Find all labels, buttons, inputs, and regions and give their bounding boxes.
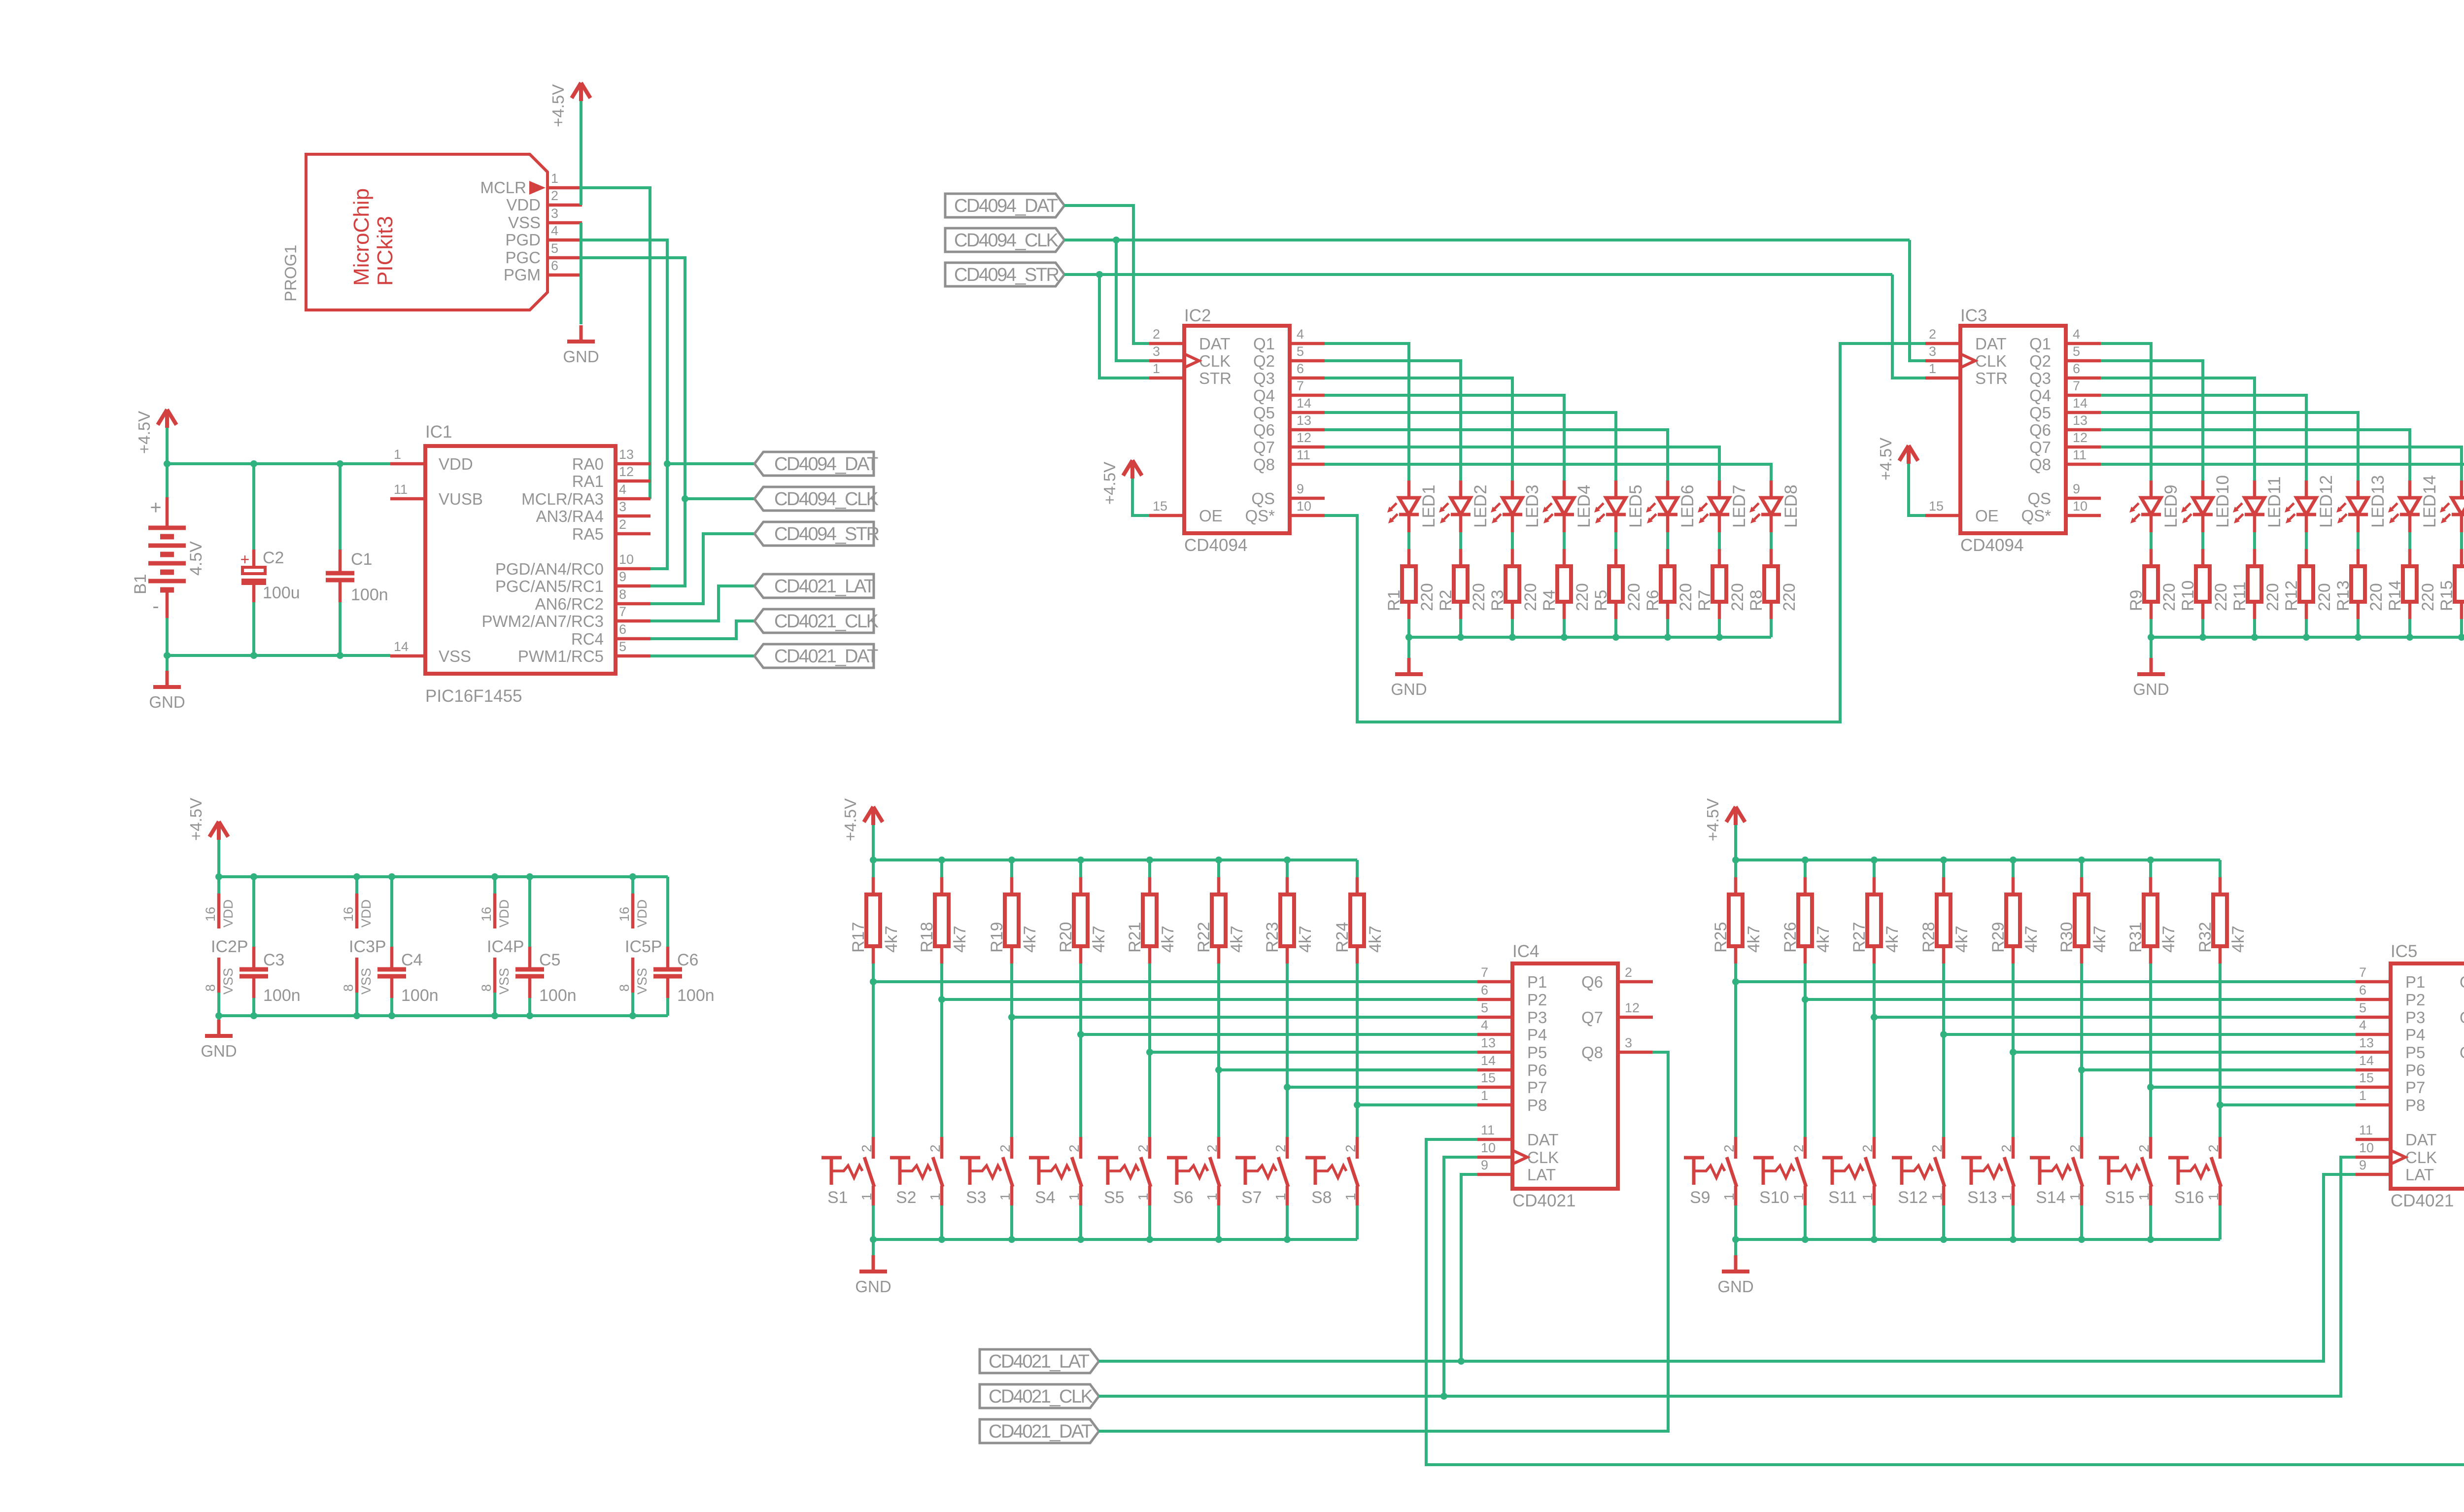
+4.5V supply at R17 rail bbox=[841, 798, 883, 841]
IC1 pin 2 RA5 bbox=[572, 517, 650, 543]
resistor R26 4k7 bbox=[1781, 877, 1833, 963]
junction bbox=[2147, 857, 2154, 863]
wire R2 to rail bbox=[1459, 619, 1462, 637]
junction bbox=[1509, 634, 1516, 641]
svg-text:AN3/RA4: AN3/RA4 bbox=[536, 507, 604, 525]
wire CD4021_DAT net bbox=[650, 654, 754, 657]
svg-text:IC2: IC2 bbox=[1184, 306, 1211, 325]
net flag CD4021_CLK bbox=[980, 1384, 1099, 1408]
LED LED15 bbox=[2440, 475, 2464, 532]
svg-text:+4.5V: +4.5V bbox=[135, 411, 153, 454]
svg-text:P4: P4 bbox=[1527, 1026, 1547, 1044]
svg-text:9: 9 bbox=[1481, 1158, 1488, 1172]
svg-text:R6: R6 bbox=[1643, 590, 1662, 611]
switch S10 bbox=[1753, 1137, 1806, 1207]
wire rail to R21 bbox=[1148, 860, 1151, 877]
svg-text:Q6: Q6 bbox=[1253, 421, 1275, 439]
ground at LED rail 1 bbox=[1391, 658, 1427, 698]
wire P2 to IC4 bbox=[942, 998, 1477, 1001]
wire LED13 to R13 bbox=[2357, 532, 2360, 549]
wire CD4094_CLK to IC2 bbox=[1116, 240, 1149, 361]
svg-text:R20: R20 bbox=[1057, 922, 1075, 953]
svg-text:QS*: QS* bbox=[2021, 507, 2051, 525]
svg-text:LED7: LED7 bbox=[1730, 484, 1749, 528]
capacitor C4 100n bbox=[377, 947, 439, 1005]
PROG1 pin 5 PGC bbox=[505, 241, 582, 267]
wire MCLR net bbox=[582, 188, 650, 499]
svg-text:R30: R30 bbox=[2057, 922, 2076, 953]
IC2 pin 12 Q7 bbox=[1253, 430, 1325, 456]
svg-text:5: 5 bbox=[2359, 1000, 2366, 1015]
svg-text:LED11: LED11 bbox=[2265, 477, 2284, 528]
wire LED11 to R11 bbox=[2253, 532, 2256, 549]
svg-text:VDD: VDD bbox=[497, 899, 512, 928]
svg-text:Q3: Q3 bbox=[2029, 369, 2051, 387]
svg-text:2: 2 bbox=[1135, 1144, 1151, 1152]
junction bbox=[1457, 634, 1464, 641]
svg-text:OE: OE bbox=[1199, 507, 1223, 525]
junction bbox=[491, 1012, 498, 1019]
svg-text:R1: R1 bbox=[1385, 590, 1403, 611]
junction P4 bbox=[1940, 1031, 1947, 1038]
wire IC3 Q5 to LED13 bbox=[2101, 412, 2358, 481]
svg-text:S16: S16 bbox=[2174, 1188, 2204, 1207]
wire R20 to S4 bbox=[1079, 963, 1082, 1137]
net flag CD4094_DAT bbox=[754, 452, 878, 476]
wire CD4094_STR to IC3 bbox=[1892, 275, 1925, 378]
junction P2 bbox=[938, 996, 945, 1003]
wire CD4021_LAT net bbox=[650, 586, 754, 621]
IC3 pin 11 Q8 bbox=[2029, 447, 2101, 474]
PROG1 pin 2 VDD bbox=[506, 188, 582, 214]
junction bbox=[870, 1236, 877, 1243]
resistor R6 220 bbox=[1643, 549, 1695, 619]
svg-text:IC5P: IC5P bbox=[625, 937, 662, 956]
svg-text:4k7: 4k7 bbox=[1228, 926, 1246, 953]
svg-text:4: 4 bbox=[1481, 1018, 1488, 1032]
junction bbox=[2199, 634, 2206, 641]
IC4 pin 3 Q8 bbox=[1581, 1035, 1653, 1062]
wire R29 to S13 bbox=[2012, 963, 2015, 1137]
svg-text:2: 2 bbox=[1273, 1144, 1288, 1152]
IC5 pin 5 P3 bbox=[2356, 1000, 2425, 1027]
svg-text:1: 1 bbox=[2067, 1193, 2083, 1201]
net flag CD4094_STR bbox=[945, 263, 1064, 286]
resistor R4 220 bbox=[1540, 549, 1592, 619]
resistor R15 220 bbox=[2437, 549, 2464, 619]
svg-text:13: 13 bbox=[1297, 413, 1311, 428]
svg-text:4k7: 4k7 bbox=[1883, 926, 1902, 953]
IC1 pin 12 RA1 bbox=[572, 464, 650, 490]
resistor R2 220 bbox=[1437, 549, 1488, 619]
wire S10 to rail bbox=[1804, 1205, 1807, 1239]
switch S16 bbox=[2168, 1137, 2221, 1207]
switch S15 bbox=[2099, 1137, 2152, 1207]
wire R28 to S12 bbox=[1942, 963, 1945, 1137]
resistor R7 220 bbox=[1695, 549, 1747, 619]
wire rail to R31 bbox=[2149, 860, 2152, 877]
junction bbox=[250, 1012, 257, 1019]
junction bbox=[1215, 1236, 1222, 1243]
net flag CD4094_CLK bbox=[945, 228, 1064, 252]
svg-text:1: 1 bbox=[394, 447, 401, 462]
LED LED10 bbox=[2181, 475, 2232, 532]
svg-text:VSS: VSS bbox=[497, 968, 512, 995]
svg-text:PGC: PGC bbox=[505, 248, 541, 267]
junction bbox=[1008, 857, 1015, 863]
PROG1 pin 6 PGM bbox=[504, 258, 582, 284]
svg-text:11: 11 bbox=[1297, 447, 1310, 462]
svg-text:+4.5V: +4.5V bbox=[187, 798, 205, 841]
svg-text:R19: R19 bbox=[988, 922, 1006, 953]
svg-text:P1: P1 bbox=[1527, 973, 1547, 991]
svg-text:P5: P5 bbox=[2405, 1043, 2425, 1062]
svg-text:S13: S13 bbox=[1967, 1188, 1997, 1207]
svg-text:4k7: 4k7 bbox=[1021, 926, 1039, 953]
wire R26 to S10 bbox=[1804, 963, 1807, 1137]
junction bbox=[1871, 1236, 1878, 1243]
IC1 pin 4 MCLR/RA3 bbox=[521, 482, 650, 508]
svg-text:PROG1: PROG1 bbox=[281, 244, 300, 302]
svg-text:S12: S12 bbox=[1898, 1188, 1928, 1207]
wire rail to R24 bbox=[1356, 860, 1359, 877]
IC5 pin 7 P1 bbox=[2356, 965, 2425, 991]
IC2 pin 2 DAT bbox=[1149, 327, 1231, 353]
junction bbox=[1940, 857, 1947, 863]
IC2 pin 1 STR bbox=[1149, 361, 1232, 387]
svg-text:LED9: LED9 bbox=[2161, 484, 2181, 528]
wire rail to R26 bbox=[1804, 860, 1807, 877]
wire R32 to S16 bbox=[2219, 963, 2222, 1137]
wire LED2 to R2 bbox=[1459, 532, 1462, 549]
svg-text:P3: P3 bbox=[1527, 1008, 1547, 1027]
svg-text:C1: C1 bbox=[351, 550, 372, 569]
wire +4.5V bypass rail bbox=[219, 875, 668, 878]
svg-text:10: 10 bbox=[2359, 1140, 2374, 1155]
junction bbox=[1561, 634, 1568, 641]
wire C5 top bbox=[528, 877, 531, 947]
wire LED10 to R10 bbox=[2201, 532, 2204, 549]
wire IC2 Q6 to LED6 bbox=[1325, 430, 1668, 481]
IC5 pin 14 P6 bbox=[2356, 1053, 2425, 1079]
svg-text:R32: R32 bbox=[2196, 922, 2215, 953]
junction bbox=[629, 1012, 636, 1019]
svg-text:220: 220 bbox=[2212, 583, 2230, 611]
svg-text:CD4094_DAT: CD4094_DAT bbox=[774, 454, 878, 475]
net flag CD4094_STR bbox=[754, 522, 879, 546]
wire C4 bottom bbox=[390, 998, 393, 1016]
svg-text:12: 12 bbox=[1625, 1000, 1640, 1015]
wire C1 bottom bbox=[339, 602, 342, 655]
svg-text:LAT: LAT bbox=[1527, 1166, 1556, 1184]
junction bbox=[526, 1012, 533, 1019]
wire P8 to IC5 bbox=[2220, 1103, 2356, 1106]
svg-text:15: 15 bbox=[1929, 499, 1944, 514]
IC3 pin 7 Q4 bbox=[2029, 378, 2101, 405]
IC1 pin 9 PGC/AN5/RC1 bbox=[495, 569, 650, 595]
svg-text:2: 2 bbox=[1153, 327, 1160, 342]
wire R15 to rail bbox=[2460, 619, 2463, 637]
svg-text:11: 11 bbox=[2073, 447, 2087, 462]
svg-text:220: 220 bbox=[1521, 583, 1540, 611]
svg-text:R13: R13 bbox=[2334, 581, 2353, 611]
svg-text:R14: R14 bbox=[2386, 581, 2404, 611]
svg-text:12: 12 bbox=[619, 464, 634, 479]
IC1 pin 7 PWM2/AN7/RC3 bbox=[481, 604, 650, 630]
junction P6 bbox=[2078, 1066, 2085, 1073]
wire rail to R23 bbox=[1286, 860, 1289, 877]
svg-text:GND: GND bbox=[1391, 680, 1427, 698]
svg-text:C5: C5 bbox=[539, 951, 560, 969]
junction P5 bbox=[1146, 1049, 1153, 1056]
svg-text:2: 2 bbox=[1625, 965, 1632, 980]
svg-text:Q8: Q8 bbox=[2029, 455, 2051, 474]
wire P8 to IC4 bbox=[1357, 1103, 1477, 1106]
svg-text:15: 15 bbox=[1153, 499, 1167, 514]
svg-text:VDD: VDD bbox=[506, 196, 541, 214]
svg-text:4: 4 bbox=[1297, 327, 1304, 342]
wire VSS IC5P bbox=[631, 993, 634, 1016]
svg-text:CD4094_STR: CD4094_STR bbox=[954, 265, 1059, 285]
svg-text:P2: P2 bbox=[2405, 991, 2425, 1009]
junction bbox=[250, 873, 257, 880]
IC4 pin 7 P1 bbox=[1477, 965, 1547, 991]
wire LED14 to R14 bbox=[2408, 532, 2411, 549]
switch S1 bbox=[821, 1137, 874, 1207]
wire R21 to S5 bbox=[1148, 963, 1151, 1137]
svg-text:Q7: Q7 bbox=[2029, 438, 2051, 456]
svg-text:Q7: Q7 bbox=[2460, 1008, 2464, 1027]
svg-text:10: 10 bbox=[2073, 499, 2088, 514]
junction bbox=[353, 873, 360, 880]
IC5 pin 15 P7 bbox=[2356, 1070, 2425, 1097]
wire IC2 Q8 to LED8 bbox=[1325, 464, 1771, 481]
wire VSS IC2P bbox=[217, 993, 220, 1016]
svg-text:LED6: LED6 bbox=[1678, 484, 1697, 528]
junction bbox=[1458, 1358, 1465, 1365]
wire IC3 Q6 to LED14 bbox=[2101, 430, 2410, 481]
svg-text:+4.5V: +4.5V bbox=[549, 84, 567, 127]
svg-text:220: 220 bbox=[1573, 583, 1592, 611]
wire C3 top bbox=[252, 877, 255, 947]
junction bbox=[1732, 1236, 1739, 1243]
svg-text:5: 5 bbox=[551, 241, 558, 256]
wire R1 to rail bbox=[1407, 619, 1410, 637]
wire supply to rail bbox=[217, 840, 220, 877]
junction bbox=[215, 873, 222, 880]
svg-text:15: 15 bbox=[1481, 1070, 1496, 1085]
svg-text:DAT: DAT bbox=[1199, 335, 1231, 353]
ground at switch rail 1 bbox=[855, 1255, 891, 1296]
IC U IC1 PIC16F1455 bbox=[425, 422, 616, 706]
wire R17 to S1 bbox=[872, 963, 875, 1137]
svg-text:13: 13 bbox=[619, 447, 634, 462]
junction bbox=[1802, 1236, 1809, 1243]
wire rail to R20 bbox=[1079, 860, 1082, 877]
IC1 pin 6 RC4 bbox=[571, 622, 650, 648]
wire P2 to IC5 bbox=[1805, 998, 2356, 1001]
svg-text:R18: R18 bbox=[918, 922, 936, 953]
IC2 pin 6 Q3 bbox=[1253, 361, 1325, 387]
IC IC5 CD4021 bbox=[2391, 942, 2464, 1210]
svg-text:14: 14 bbox=[1297, 396, 1311, 411]
svg-text:220: 220 bbox=[2419, 583, 2437, 611]
svg-text:2: 2 bbox=[551, 188, 558, 203]
wire to ground bbox=[1734, 1239, 1737, 1255]
resistor R8 220 bbox=[1747, 549, 1799, 619]
IC1 pin 13 RA0 bbox=[572, 447, 650, 473]
wire switch ground rail 2 bbox=[1736, 1238, 2220, 1241]
junction P8 bbox=[2217, 1101, 2224, 1108]
svg-text:+4.5V: +4.5V bbox=[1704, 798, 1722, 841]
svg-text:Q2: Q2 bbox=[2029, 352, 2051, 370]
svg-text:11: 11 bbox=[394, 482, 408, 497]
resistor R29 4k7 bbox=[1989, 877, 2041, 963]
svg-text:CD4021_CLK: CD4021_CLK bbox=[989, 1386, 1093, 1407]
svg-text:1: 1 bbox=[2359, 1088, 2366, 1103]
svg-text:S15: S15 bbox=[2105, 1188, 2135, 1207]
wire +4.5V pullup rail 1 bbox=[873, 859, 1357, 861]
wire rail to R27 bbox=[1873, 860, 1876, 877]
svg-text:Q8: Q8 bbox=[1253, 455, 1275, 474]
junction bbox=[1871, 857, 1878, 863]
svg-text:2: 2 bbox=[1929, 327, 1936, 342]
PROG1 pin 3 VSS bbox=[508, 206, 582, 232]
wire IC3 Q7 to LED15 bbox=[2101, 447, 2462, 481]
LED LED7 bbox=[1698, 481, 1749, 532]
LED LED9 bbox=[2129, 481, 2181, 532]
svg-text:IC4P: IC4P bbox=[487, 937, 524, 956]
svg-text:1: 1 bbox=[927, 1193, 943, 1201]
resistor R31 4k7 bbox=[2126, 877, 2178, 963]
svg-text:PGD/AN4/RC0: PGD/AN4/RC0 bbox=[495, 560, 604, 578]
resistor R9 220 bbox=[2127, 549, 2179, 619]
svg-text:PGM: PGM bbox=[504, 266, 541, 284]
svg-text:14: 14 bbox=[1481, 1053, 1496, 1068]
wire R12 to rail bbox=[2305, 619, 2308, 637]
junction bbox=[2078, 1236, 2085, 1243]
junction bbox=[2251, 634, 2258, 641]
wire IC3 Q2 to LED10 bbox=[2101, 361, 2203, 481]
svg-text:2: 2 bbox=[1066, 1144, 1082, 1152]
+4.5V supply at PROG1 bbox=[549, 83, 590, 127]
switch S7 bbox=[1235, 1137, 1288, 1207]
wire S7 to rail bbox=[1286, 1205, 1289, 1239]
wire IC2 Q3 to LED3 bbox=[1325, 378, 1512, 481]
junction bbox=[1096, 271, 1103, 278]
IC2 pin 7 Q4 bbox=[1253, 378, 1325, 405]
wire IC3 Q3 to LED11 bbox=[2101, 378, 2255, 481]
wire LED4 to R4 bbox=[1563, 532, 1566, 549]
IC4 pin 14 P6 bbox=[1477, 1053, 1547, 1079]
svg-text:IC1: IC1 bbox=[425, 422, 452, 442]
wire S8 to rail bbox=[1356, 1205, 1359, 1239]
svg-text:GND: GND bbox=[2133, 680, 2169, 698]
svg-text:14: 14 bbox=[394, 639, 409, 654]
svg-text:PICkit3: PICkit3 bbox=[373, 216, 397, 286]
junction bbox=[164, 652, 171, 659]
svg-text:220: 220 bbox=[1625, 583, 1643, 611]
resistor R14 220 bbox=[2386, 549, 2437, 619]
IC4 pin 9 LAT bbox=[1477, 1158, 1556, 1184]
svg-text:P2: P2 bbox=[1527, 991, 1547, 1009]
svg-text:R9: R9 bbox=[2127, 590, 2146, 611]
wire IC3 Q1 to LED9 bbox=[2101, 344, 2151, 481]
svg-text:1: 1 bbox=[1135, 1193, 1151, 1201]
svg-text:P6: P6 bbox=[1527, 1061, 1547, 1079]
wire LED9 to R9 bbox=[2150, 532, 2153, 549]
svg-text:7: 7 bbox=[1297, 378, 1304, 393]
svg-text:8: 8 bbox=[479, 984, 494, 992]
wire S5 to rail bbox=[1148, 1205, 1151, 1239]
svg-text:-: - bbox=[152, 595, 159, 617]
svg-text:P4: P4 bbox=[2405, 1026, 2425, 1044]
switch S12 bbox=[1892, 1137, 1945, 1207]
junction bbox=[1077, 857, 1084, 863]
svg-text:2: 2 bbox=[1791, 1144, 1806, 1152]
junction bbox=[1284, 1236, 1291, 1243]
wire R4 to rail bbox=[1563, 619, 1566, 637]
resistor R18 4k7 bbox=[918, 877, 969, 963]
capacitor C6 100n bbox=[653, 947, 715, 1005]
wire LED ground rail 2 bbox=[2151, 636, 2464, 639]
IC2 pin 4 Q1 bbox=[1253, 327, 1325, 353]
svg-text:LED1: LED1 bbox=[1419, 484, 1438, 528]
wire rail to R25 bbox=[1734, 860, 1737, 877]
svg-text:B1: B1 bbox=[131, 574, 150, 594]
wire P6 to IC5 bbox=[2082, 1068, 2356, 1071]
svg-text:Q1: Q1 bbox=[1253, 335, 1275, 353]
net flag CD4021_CLK bbox=[754, 609, 879, 633]
svg-text:R21: R21 bbox=[1126, 922, 1144, 953]
wire S14 to rail bbox=[2080, 1205, 2083, 1239]
resistor R12 220 bbox=[2282, 549, 2334, 619]
IC2 pin 11 Q8 bbox=[1253, 447, 1325, 474]
svg-text:5: 5 bbox=[619, 639, 626, 654]
svg-text:2: 2 bbox=[1929, 1144, 1945, 1152]
svg-text:S2: S2 bbox=[896, 1188, 917, 1207]
LED LED14 bbox=[2388, 475, 2439, 532]
junction bbox=[938, 1236, 945, 1243]
svg-text:6: 6 bbox=[1297, 361, 1304, 376]
net flag CD4094_CLK bbox=[754, 487, 879, 511]
svg-text:8: 8 bbox=[617, 984, 632, 992]
junction bbox=[491, 873, 498, 880]
wire C4 top bbox=[390, 877, 393, 947]
wire LED15 to R15 bbox=[2460, 532, 2463, 549]
resistor R3 220 bbox=[1488, 549, 1540, 619]
LED LED11 bbox=[2233, 477, 2284, 532]
svg-text:R22: R22 bbox=[1195, 922, 1213, 953]
svg-text:4k7: 4k7 bbox=[882, 926, 901, 953]
svg-text:P7: P7 bbox=[1527, 1078, 1547, 1097]
svg-text:QS: QS bbox=[2027, 489, 2051, 508]
IC5 pin 12 Q7 bbox=[2460, 1000, 2464, 1027]
svg-text:6: 6 bbox=[1481, 983, 1488, 997]
wire CD4094_CLK net bbox=[685, 497, 754, 500]
+4.5V supply at battery bbox=[135, 410, 176, 454]
svg-text:C3: C3 bbox=[263, 951, 284, 969]
wire R7 to rail bbox=[1718, 619, 1721, 637]
svg-text:4: 4 bbox=[2073, 327, 2080, 342]
svg-text:S11: S11 bbox=[1828, 1188, 1857, 1207]
svg-text:4k7: 4k7 bbox=[2159, 926, 2178, 953]
svg-text:7: 7 bbox=[1481, 965, 1488, 980]
svg-text:S3: S3 bbox=[966, 1188, 987, 1207]
IC3 pin 3 CLK bbox=[1925, 344, 2007, 370]
svg-text:P6: P6 bbox=[2405, 1061, 2425, 1079]
wire R9 to rail bbox=[2150, 619, 2153, 637]
